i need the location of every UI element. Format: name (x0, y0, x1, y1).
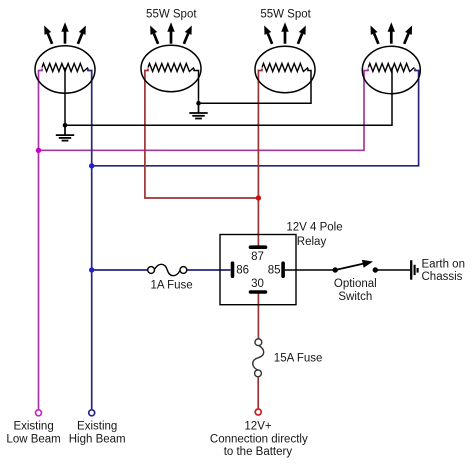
wire black pin85 to switch (285, 269, 335, 271)
svg-text:Existing: Existing (13, 420, 53, 432)
lamp LP4 light arrows (371, 22, 413, 44)
earth chassis symbol (411, 260, 417, 280)
ground lamp1/4 (56, 125, 74, 140)
svg-text:Switch: Switch (338, 291, 372, 303)
fuse F2 15A (in red wire below pin 30) (253, 339, 264, 377)
lamp LP3 filament (262, 64, 308, 72)
wire black switch to chassis earth (375, 269, 410, 271)
junction blue at (91.7,270) (89, 267, 94, 272)
svg-text:Connection directly: Connection directly (210, 434, 308, 446)
junction blue at (91.7,165.8) (89, 163, 94, 168)
lamp LP3 envelope (255, 46, 315, 92)
lamp LP1 light arrows (44, 22, 86, 44)
svg-text:55W Spot: 55W Spot (146, 8, 197, 20)
svg-text:85: 85 (268, 265, 281, 277)
svg-text:15A Fuse: 15A Fuse (274, 353, 323, 365)
svg-text:High Beam: High Beam (69, 434, 126, 446)
svg-text:Earth on: Earth on (422, 258, 465, 270)
svg-text:12V 4 Pole: 12V 4 Pole (286, 222, 342, 234)
lamp LP1 envelope (35, 46, 95, 93)
wire red feed (lamp2 left pin down+right, lamp3 left pin down, to relay 87; 30 down to fuse and 12V+) (145, 69, 262, 409)
svg-text:12V+: 12V+ (244, 420, 271, 432)
junction magenta at (38.5,150.3) (36, 148, 41, 153)
lamp LP4 filament (368, 64, 414, 72)
fuse F1 1A (in blue wire to pin 86) (148, 264, 187, 275)
relay K1 box (220, 235, 296, 305)
switch S1 optional (333, 260, 378, 273)
svg-text:86: 86 (236, 265, 249, 277)
svg-text:Optional: Optional (334, 278, 377, 290)
junction red at (258.4,198) (256, 195, 261, 200)
ground lamp2/3 (189, 103, 207, 118)
junction black at (198.5,103.2) (196, 101, 201, 106)
relay K1 pin 30 (251, 290, 266, 294)
wire blue high-beam bus (lamp1 right pin down, across to lamp4 right pin, down to fuse row and terminal) (88, 69, 419, 410)
svg-text:Chassis: Chassis (422, 271, 463, 283)
wire magenta low-beam bus (lamp1 left pin down, across to lamp4 left pin) (39, 69, 369, 410)
svg-text:Existing: Existing (77, 420, 117, 432)
svg-text:to the Battery: to the Battery (224, 446, 293, 458)
relay K1 pin 85 (281, 263, 285, 276)
lamp LP3 light arrows (264, 22, 306, 44)
svg-text:Low Beam: Low Beam (6, 434, 60, 446)
wire black lamp1/lamp4 centre ground net (65, 68, 392, 126)
lamp LP2 filament (148, 64, 194, 72)
relay K1 pin 87 (251, 245, 266, 249)
terminal existing low beam (36, 410, 42, 416)
svg-text:87: 87 (251, 251, 264, 263)
svg-text:Relay: Relay (297, 236, 327, 248)
junction black at (65,125.3) (63, 123, 68, 128)
lamp LP2 light arrows (150, 22, 192, 44)
terminal 12V+ battery (255, 409, 261, 415)
relay K1 pin 86 (231, 263, 235, 276)
svg-text:30: 30 (251, 278, 264, 290)
lamp LP1 filament (42, 64, 88, 72)
lamp LP4 envelope (362, 46, 420, 93)
lamp LP2 envelope (141, 45, 201, 91)
terminal existing high beam (89, 410, 95, 416)
wire black lamp2/lamp3 ground net (194, 69, 311, 104)
svg-text:55W Spot: 55W Spot (260, 8, 311, 20)
svg-text:1A Fuse: 1A Fuse (150, 280, 192, 292)
